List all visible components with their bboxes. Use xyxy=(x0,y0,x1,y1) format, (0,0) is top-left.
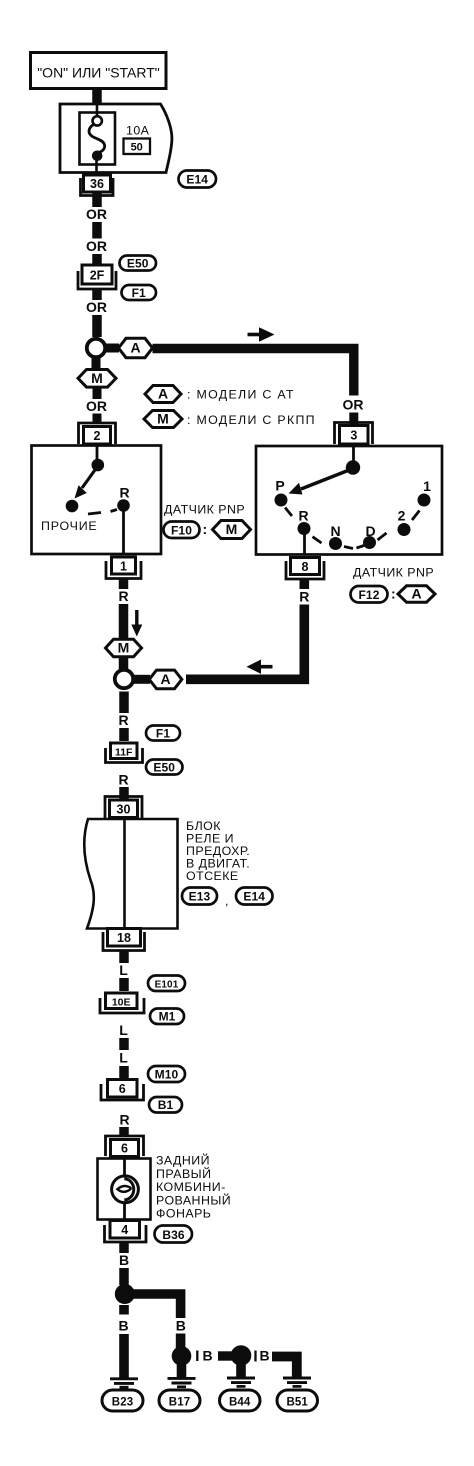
svg-text:10A: 10A xyxy=(126,124,150,138)
lamp L1: rear right combination lamp box xyxy=(98,1159,151,1220)
wire from ignition box to fuse block E14 xyxy=(92,88,102,107)
ground label B17 xyxy=(159,1390,200,1411)
wire below pin 18 xyxy=(119,951,129,964)
wire contact R to pin 1 xyxy=(122,509,125,555)
wire right branch down and to node A-lower xyxy=(186,605,304,680)
svg-text:OR: OR xyxy=(343,397,364,413)
connector pin 4 xyxy=(105,1221,147,1243)
connector label E101 xyxy=(148,976,185,992)
svg-text:ДАТЧИК PNP: ДАТЧИК PNP xyxy=(164,503,245,517)
svg-text:M: M xyxy=(226,521,238,537)
wire into switch from pin 3 xyxy=(352,446,355,462)
wire tick J3-B xyxy=(254,1351,256,1362)
wire segment to connector 11F xyxy=(119,728,129,741)
wire segment xyxy=(92,222,102,239)
junction J3 xyxy=(231,1345,252,1366)
contact P xyxy=(275,494,288,507)
svg-text:M: M xyxy=(118,640,130,656)
wire segment xyxy=(93,387,102,399)
svg-text:2: 2 xyxy=(94,429,101,443)
svg-text:F1: F1 xyxy=(132,286,146,300)
connector pin 2 (PNP sensor MT) xyxy=(79,423,116,444)
svg-text:R: R xyxy=(298,508,308,524)
svg-text:OR: OR xyxy=(86,238,107,254)
svg-text:2: 2 xyxy=(398,508,406,524)
dash arc segment xyxy=(111,510,118,512)
wire below pin 8 xyxy=(299,579,309,589)
ground GND3 xyxy=(227,1378,255,1386)
svg-text:R: R xyxy=(119,485,129,501)
svg-text:N: N xyxy=(330,523,340,539)
svg-text:P: P xyxy=(275,478,284,494)
hexagon tag A (right sensor) xyxy=(398,586,435,603)
svg-text:E50: E50 xyxy=(153,761,175,775)
connector label E14 (relay box) xyxy=(236,888,273,905)
svg-text:M: M xyxy=(157,411,169,427)
wire branch to junction J2 xyxy=(176,1334,186,1349)
svg-text:OR: OR xyxy=(86,206,107,222)
svg-text:"ON" ИЛИ "START": "ON" ИЛИ "START" xyxy=(37,65,160,81)
svg-text:ЗАДНИЙ: ЗАДНИЙ xyxy=(156,1153,210,1168)
svg-text:B17: B17 xyxy=(169,1397,190,1409)
svg-text:ОТСЕКЕ: ОТСЕКЕ xyxy=(186,869,239,883)
switch S1: PNP sensor (MT) box xyxy=(32,446,162,555)
wire to bulb xyxy=(123,1159,126,1177)
svg-text:ДАТЧИК PNP: ДАТЧИК PNP xyxy=(353,566,434,580)
svg-text:B: B xyxy=(118,1318,128,1334)
connector label F1 (11F) xyxy=(146,726,180,741)
node A-lower: junction circle xyxy=(115,670,133,688)
svg-text:8: 8 xyxy=(302,560,309,574)
wire stub node to hexagon A (lower) xyxy=(134,675,150,684)
svg-text:2F: 2F xyxy=(90,269,105,283)
svg-text:B36: B36 xyxy=(162,1228,185,1242)
connector label E13 xyxy=(182,888,229,909)
svg-text:E13: E13 xyxy=(189,890,211,904)
connector label B36 xyxy=(155,1226,193,1243)
svg-text:КОМБИНИ-: КОМБИНИ- xyxy=(156,1180,226,1194)
ground label B51 xyxy=(277,1390,318,1411)
dash arc P-R xyxy=(285,508,292,517)
connector label F1 xyxy=(122,285,157,300)
ground label B44 xyxy=(220,1390,261,1411)
svg-text:РОВАННЫЙ: РОВАННЫЙ xyxy=(156,1192,231,1207)
hexagon tag M (models with MT) xyxy=(78,370,116,388)
wire stub node to hexagon A xyxy=(106,344,119,353)
ground GND2 xyxy=(168,1378,196,1386)
svg-text:R: R xyxy=(118,712,128,728)
wire segment OR below pin 36 xyxy=(92,192,102,207)
dash arc N-D right xyxy=(357,546,365,549)
svg-text:E50: E50 xyxy=(127,257,149,271)
wire through relay box xyxy=(123,819,126,929)
switch pivot contact xyxy=(92,459,105,472)
wire from bulb to pin 4 xyxy=(123,1203,126,1220)
svg-text:10E: 10E xyxy=(112,997,131,1009)
connector pin 8 xyxy=(286,558,324,580)
svg-text:A: A xyxy=(411,586,421,602)
contact 1 (AT) xyxy=(418,494,431,507)
fuse number box 50 xyxy=(124,139,151,155)
ground label B23 xyxy=(102,1390,143,1411)
wire segment xyxy=(92,315,102,337)
wire J3 right then down to ground B51 xyxy=(272,1357,297,1377)
connector pin 30 xyxy=(105,797,142,819)
svg-text:R: R xyxy=(118,588,128,604)
svg-text:OR: OR xyxy=(86,398,107,414)
wire segment to lamp pin 6 xyxy=(119,1127,129,1137)
svg-text:M: M xyxy=(91,370,103,386)
hexagon tag M (lower) xyxy=(106,639,142,657)
svg-text:3: 3 xyxy=(350,429,357,443)
svg-text:,: , xyxy=(225,894,229,908)
switch arm with arrowhead (points to P) xyxy=(289,469,354,495)
svg-text:B23: B23 xyxy=(112,1397,133,1409)
svg-text:6: 6 xyxy=(121,1142,128,1156)
node A-upper: junction circle xyxy=(87,339,105,357)
wire to ground B23 xyxy=(119,1305,129,1315)
wire below node A-lower xyxy=(119,692,129,714)
switch S2: PNP sensor (AT) box xyxy=(256,446,442,555)
svg-text:OR: OR xyxy=(86,299,107,315)
in-line connector 11F xyxy=(106,743,143,763)
dash arc N-D left xyxy=(344,547,353,549)
legend hexagon M xyxy=(144,411,316,428)
svg-text:R: R xyxy=(119,1112,129,1128)
legend hexagon A xyxy=(145,386,295,403)
hexagon tag A (models with AT) xyxy=(119,338,153,357)
svg-text:50: 50 xyxy=(131,142,143,154)
svg-text:18: 18 xyxy=(117,931,131,945)
switch pivot contact (AT) xyxy=(346,460,360,474)
wire segment to hexagon M xyxy=(119,604,129,640)
wire segment xyxy=(119,978,129,991)
wire segment above pin 3 xyxy=(349,413,358,425)
junction J2 xyxy=(172,1346,192,1366)
svg-text:ПРАВЫЙ: ПРАВЫЙ xyxy=(156,1166,211,1181)
wire below pin 1 xyxy=(119,579,129,590)
svg-text:B: B xyxy=(119,1252,129,1268)
contact ПРОЧИЕ xyxy=(66,500,79,513)
wire J3 to ground B44 xyxy=(236,1364,246,1377)
in-line connector 2F xyxy=(78,265,116,289)
label ЗАДНИЙ ПРАВЫЙ КОМБИНИРОВАННЫЙ ФОНАРЬ xyxy=(156,1153,231,1221)
svg-text:F10: F10 xyxy=(171,524,192,538)
contact 2 xyxy=(398,523,411,536)
ground GND4 xyxy=(283,1378,311,1386)
svg-text:B1: B1 xyxy=(158,1098,174,1112)
svg-text:A: A xyxy=(160,671,170,687)
svg-text:L: L xyxy=(119,1050,128,1066)
contact R xyxy=(117,499,130,512)
fuse F 10A (symbol) xyxy=(80,104,116,173)
switch arm with arrowhead xyxy=(75,466,98,499)
connector label E14 xyxy=(179,171,217,188)
wire below pin 4 xyxy=(119,1242,129,1253)
wire segment hexagon to node xyxy=(119,657,129,670)
svg-text:B: B xyxy=(259,1348,269,1364)
contact R (AT) xyxy=(298,522,311,535)
svg-text:: МОДЕЛИ С РКПП: : МОДЕЛИ С РКПП xyxy=(187,413,316,427)
svg-text:B51: B51 xyxy=(286,1397,308,1409)
dash arc 2-1 xyxy=(412,511,420,521)
connector label F10 xyxy=(164,521,208,538)
wire tick J2-B xyxy=(196,1351,198,1362)
connector pin 3 (PNP sensor AT) xyxy=(335,423,373,445)
connector pin 36 xyxy=(81,175,114,196)
wire segment xyxy=(119,1038,129,1050)
wire segment xyxy=(119,1066,129,1078)
hexagon tag A (lower) xyxy=(149,670,182,689)
junction J1 xyxy=(115,1284,135,1304)
connector label F12 xyxy=(351,586,396,603)
svg-text:6: 6 xyxy=(119,1082,126,1096)
svg-text::: : xyxy=(203,521,208,537)
wire segment above pin 2 xyxy=(93,414,102,425)
connector label M1 xyxy=(150,1009,184,1025)
svg-text:M10: M10 xyxy=(155,1068,179,1082)
connector label E50 xyxy=(120,256,157,271)
svg-text:L: L xyxy=(119,962,128,978)
svg-text:B: B xyxy=(202,1348,212,1364)
svg-text:B44: B44 xyxy=(229,1397,251,1409)
svg-text:A: A xyxy=(130,340,140,356)
relay/fuse box in engine compartment (torn-edge box) xyxy=(84,819,177,929)
in-line connector 10E xyxy=(100,993,144,1013)
arrow left (flow direction) xyxy=(247,660,273,674)
wire segment to junction xyxy=(119,1268,129,1285)
connector pin 6 (lamp) xyxy=(106,1136,144,1157)
svg-text:B: B xyxy=(176,1318,186,1334)
svg-text:F12: F12 xyxy=(359,588,380,602)
dash arc R-N xyxy=(313,537,322,543)
svg-text:M1: M1 xyxy=(159,1010,176,1024)
svg-text:ПРОЧИЕ: ПРОЧИЕ xyxy=(41,519,98,533)
bulb (lamp symbol) xyxy=(112,1176,139,1203)
svg-text:E14: E14 xyxy=(186,173,208,187)
arrow down (flow direction) xyxy=(131,610,142,637)
wire: horizontal run to right branch then down to pin 3 xyxy=(153,349,354,396)
connector pin 18 xyxy=(103,929,145,951)
svg-text:ФОНАРЬ: ФОНАРЬ xyxy=(156,1207,211,1221)
wire segment xyxy=(92,289,102,300)
hexagon tag M (left sensor) xyxy=(213,521,251,539)
contact D xyxy=(363,536,376,549)
wire into switch from pin 2 xyxy=(96,446,99,460)
label БЛОК РЕЛЕ И ПРЕДОХР. В ДВИГАТ. ОТСЕКЕ xyxy=(186,819,250,883)
svg-text:F1: F1 xyxy=(156,727,170,741)
svg-text:36: 36 xyxy=(90,177,104,191)
dash arc segment xyxy=(88,513,101,515)
wire J1 right then down (branch to B17) xyxy=(132,1294,181,1318)
wire segment xyxy=(92,254,102,266)
svg-text:30: 30 xyxy=(117,803,131,817)
svg-text:A: A xyxy=(158,386,168,402)
contact N xyxy=(329,537,342,550)
connector label E50 (11F) xyxy=(146,760,183,775)
connector label B1 xyxy=(149,1097,182,1113)
wire segment to ground B23 xyxy=(119,1334,129,1378)
connector pin 1 xyxy=(106,557,141,579)
wire contact R to pin 8 xyxy=(303,532,306,555)
svg-text:L: L xyxy=(119,1022,128,1038)
in-line connector 6 (M10/B1) xyxy=(101,1080,144,1101)
svg-text:R: R xyxy=(299,589,309,605)
wire J2 to ground B17 xyxy=(177,1364,187,1377)
svg-text:11F: 11F xyxy=(115,747,133,759)
svg-text:E14: E14 xyxy=(243,890,265,904)
node IGN: ignition switch position box "ON" ИЛИ "START" xyxy=(31,53,167,89)
svg-text:R: R xyxy=(118,772,128,788)
svg-text:4: 4 xyxy=(121,1223,128,1237)
svg-text:E101: E101 xyxy=(155,980,179,991)
connector label M10 xyxy=(148,1066,185,1082)
arrow right (flow direction, AT branch) xyxy=(248,327,275,341)
svg-text::: : xyxy=(391,586,396,602)
svg-text:1: 1 xyxy=(423,478,431,494)
ground GND1 xyxy=(110,1379,138,1387)
svg-text:: МОДЕЛИ С АТ: : МОДЕЛИ С АТ xyxy=(187,388,295,402)
wire J2 to J3 xyxy=(218,1351,232,1360)
fuse block E14 (torn-edge box) xyxy=(60,104,172,173)
dash arc D-2 xyxy=(378,533,387,540)
wire segment node to hexagon M xyxy=(92,358,101,371)
wire segment to pin 30 xyxy=(119,787,129,799)
svg-text:1: 1 xyxy=(120,560,127,574)
